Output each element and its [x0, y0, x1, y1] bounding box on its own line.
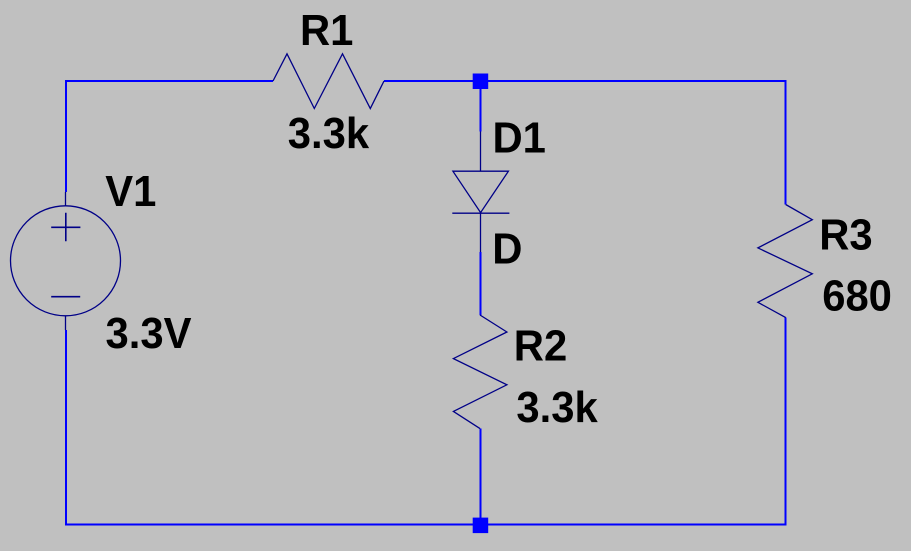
- node A junction dot (top middle): [473, 74, 489, 90]
- voltage source V1 top lead: [65, 192, 67, 206]
- voltage source V1 minus sign: [51, 296, 80, 298]
- svg-text:R3: R3: [819, 210, 872, 259]
- voltage source V1 circle: [11, 206, 121, 316]
- svg-text:V1: V1: [105, 167, 156, 216]
- wire right vertical top (corner down to R3 top): [785, 80, 787, 205]
- svg-text:680: 680: [822, 272, 892, 321]
- wire left vertical (top corner down to V1 top pin): [65, 80, 67, 192]
- resistor R3 zigzag: [758, 205, 812, 318]
- diode D1 triangle: [453, 171, 509, 212]
- wire top-left horizontal (V1 top to R1 left): [65, 80, 273, 82]
- svg-text:3.3k: 3.3k: [288, 109, 369, 158]
- svg-text:D1: D1: [493, 113, 546, 162]
- svg-text:R1: R1: [300, 6, 353, 55]
- wire node A to D1 anode: [480, 81, 482, 132]
- resistor R2 zigzag: [453, 315, 507, 429]
- wire bottom horizontal: [65, 524, 787, 526]
- wire top horizontal (R1 right through node to top-right corner): [384, 80, 787, 82]
- wire R2 bottom to node B: [480, 429, 482, 519]
- wire left vertical bottom (V1 bottom pin to bottom corner): [65, 330, 67, 526]
- voltage source V1 plus sign: [51, 213, 80, 242]
- voltage source V1 bottom lead: [65, 316, 67, 330]
- wire right vertical bottom (R3 bottom to bottom-right corner): [785, 318, 787, 526]
- resistor R1 zigzag: [273, 54, 384, 109]
- svg-text:D: D: [492, 225, 522, 274]
- node B junction dot (bottom middle): [473, 518, 489, 534]
- diode D1 bottom lead: [480, 213, 482, 252]
- wire D1 cathode to R2 top: [480, 252, 482, 315]
- diode D1 top lead: [480, 132, 482, 172]
- svg-text:R2: R2: [514, 322, 567, 371]
- svg-text:3.3V: 3.3V: [106, 309, 192, 358]
- diode D1 cathode bar: [452, 212, 509, 214]
- svg-text:3.3k: 3.3k: [516, 383, 597, 432]
